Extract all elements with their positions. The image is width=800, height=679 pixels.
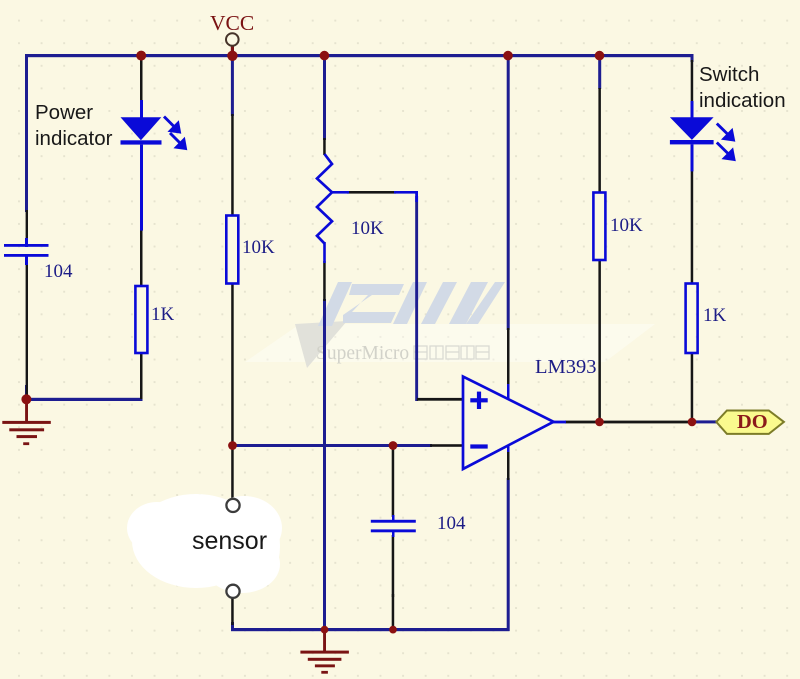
svg-text:SuperMicro: SuperMicro <box>316 343 409 364</box>
